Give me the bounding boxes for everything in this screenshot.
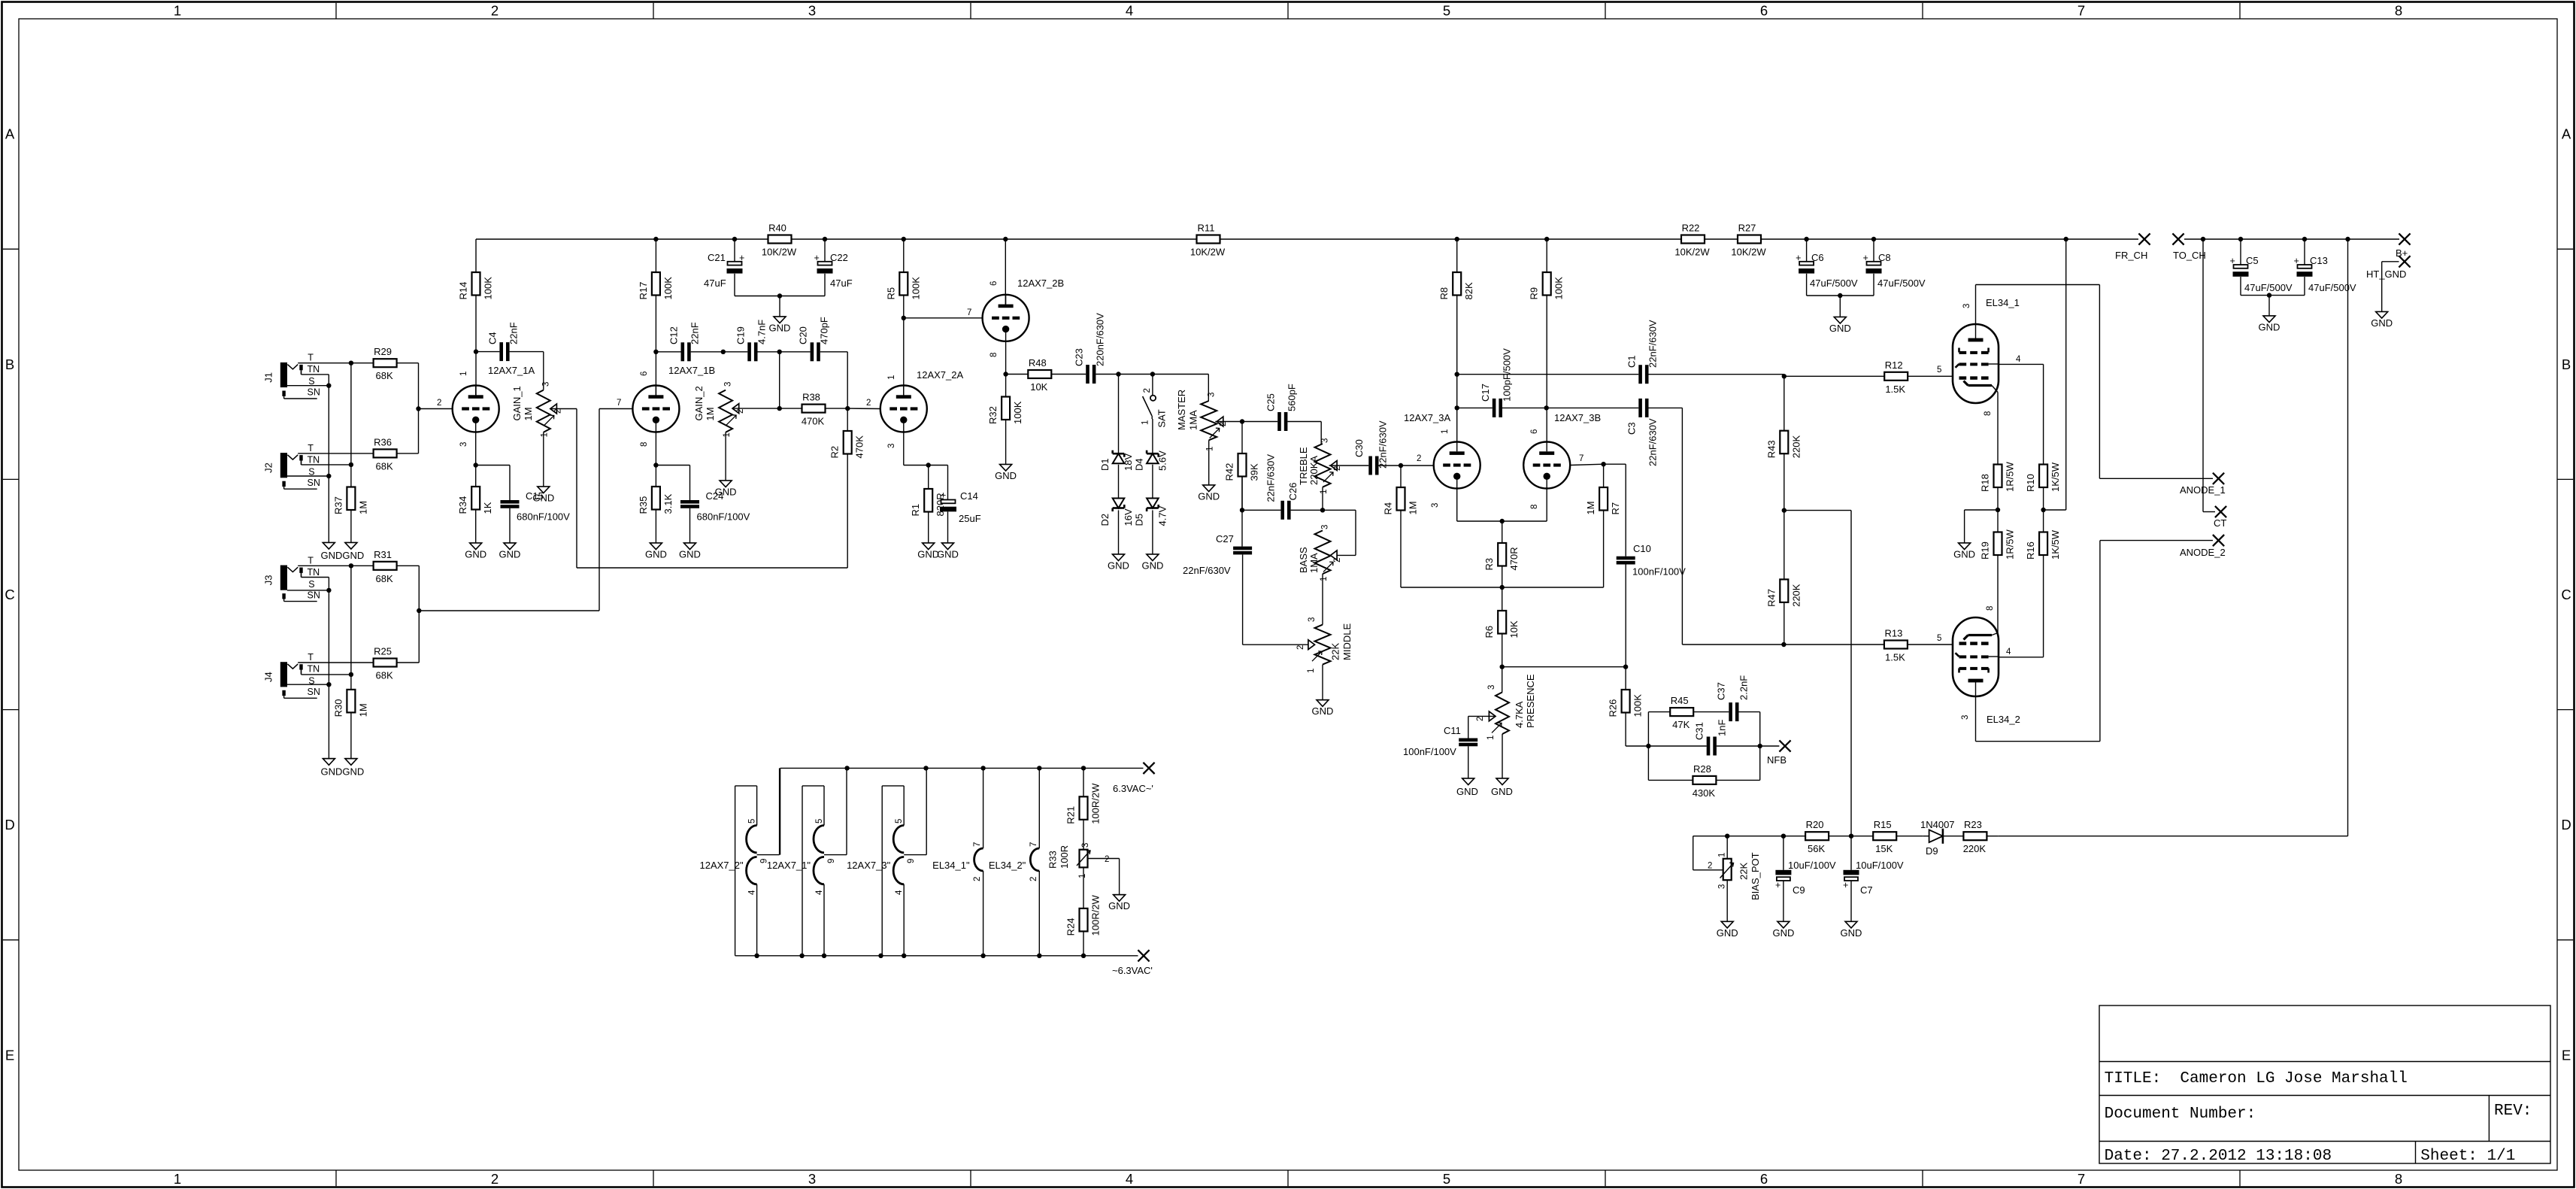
wire heater top bus xyxy=(780,767,1144,769)
capacitor C9 xyxy=(1775,836,1836,922)
date text xyxy=(2105,1148,2332,1165)
pin label EL34_2 g1 xyxy=(1937,634,1941,643)
svg-text:3: 3 xyxy=(1718,884,1727,889)
wire C3 to R13 node xyxy=(1649,408,1787,647)
svg-text:6: 6 xyxy=(989,281,999,286)
svg-text:J4: J4 xyxy=(263,672,274,682)
svg-text:8: 8 xyxy=(640,442,649,447)
wire cathode 2A xyxy=(904,432,948,505)
zener diode D5 xyxy=(1134,499,1168,526)
svg-text:R26: R26 xyxy=(1608,699,1619,717)
wire grid 1A xyxy=(0,0,1,1)
svg-text:ANODE_2: ANODE_2 xyxy=(2180,547,2226,558)
wire PRESENCE wiper to C11 xyxy=(1468,716,1496,738)
ground C5/C13 xyxy=(2259,316,2281,333)
node C26 bus xyxy=(1240,508,1244,512)
node R3 bottom xyxy=(1500,585,1505,590)
wire J3 tip xyxy=(298,563,373,568)
diode D9 1N4007 xyxy=(1920,819,1963,857)
svg-text:J1: J1 xyxy=(263,372,274,383)
svg-text:6: 6 xyxy=(640,372,649,376)
off-page connector NFB xyxy=(1767,740,1791,766)
svg-text:CT: CT xyxy=(2214,517,2226,529)
svg-text:4: 4 xyxy=(895,890,904,895)
svg-text:C20: C20 xyxy=(798,326,809,344)
svg-text:1M: 1M xyxy=(1408,501,1419,514)
svg-text:R34: R34 xyxy=(457,496,468,514)
svg-text:5: 5 xyxy=(748,819,757,824)
wire heater bottom bus xyxy=(735,955,1138,957)
svg-text:3: 3 xyxy=(1308,617,1317,622)
ground C14 xyxy=(937,543,959,560)
svg-text:GND: GND xyxy=(1717,927,1738,939)
potentiometer GAIN_1 xyxy=(511,382,563,438)
svg-text:R42: R42 xyxy=(1224,463,1235,481)
svg-text:GND: GND xyxy=(1772,927,1794,939)
svg-text:TN: TN xyxy=(308,664,320,675)
svg-text:10K: 10K xyxy=(1508,620,1520,638)
potentiometer PRESENCE xyxy=(1476,667,1536,740)
svg-text:47uF/500V: 47uF/500V xyxy=(2244,282,2293,293)
svg-text:22K: 22K xyxy=(1330,643,1341,660)
svg-text:2: 2 xyxy=(1029,877,1038,881)
svg-text:9: 9 xyxy=(907,859,916,863)
svg-text:MIDDLE: MIDDLE xyxy=(1341,623,1353,660)
svg-text:GND: GND xyxy=(1456,786,1478,797)
pin label grid 3A xyxy=(1417,454,1421,463)
capacitor C6 xyxy=(1796,252,1858,289)
wire C12 to C19 node xyxy=(691,350,726,354)
svg-text:R25: R25 xyxy=(374,646,392,657)
wire R42 to C26 xyxy=(1241,476,1243,511)
svg-text:3: 3 xyxy=(459,442,468,447)
svg-text:5.6V: 5.6V xyxy=(1157,450,1168,471)
svg-text:1.5K: 1.5K xyxy=(1885,652,1905,663)
svg-text:1R/5W: 1R/5W xyxy=(2005,529,2016,560)
svg-text:4.7nF: 4.7nF xyxy=(756,320,768,344)
svg-text:C: C xyxy=(5,587,14,602)
svg-text:470R: 470R xyxy=(1508,547,1520,570)
off-page connector TO_CH xyxy=(2172,233,2205,261)
svg-text:7: 7 xyxy=(2077,1171,2085,1187)
wire SAT to D4 xyxy=(1151,416,1153,453)
capacitor C10 xyxy=(1617,543,1686,667)
resistor R28 xyxy=(1693,763,1760,799)
svg-text:3: 3 xyxy=(1961,715,1970,720)
zener diode D2 xyxy=(1099,499,1134,526)
wire B+ to bias xyxy=(1998,239,2347,836)
svg-text:R27: R27 xyxy=(1738,223,1756,234)
svg-text:C37: C37 xyxy=(1716,682,1727,700)
svg-text:R6: R6 xyxy=(1483,626,1495,638)
wire C23 to SAT/master xyxy=(1096,372,1208,401)
title text xyxy=(2105,1070,2408,1087)
svg-text:1: 1 xyxy=(1718,853,1727,857)
svg-text:10K: 10K xyxy=(1030,381,1047,393)
title block frame xyxy=(2099,1005,2550,1163)
svg-text:1K/5W: 1K/5W xyxy=(2050,462,2061,492)
svg-text:C17: C17 xyxy=(1480,384,1491,402)
svg-text:220K: 220K xyxy=(1790,435,1802,459)
resistor R32 xyxy=(987,375,1023,465)
svg-text:10K/2W: 10K/2W xyxy=(1190,247,1226,258)
capacitor C4 xyxy=(487,322,520,361)
svg-text:3: 3 xyxy=(542,382,551,387)
resistor R34 xyxy=(457,466,493,544)
wire TO_CH to CT xyxy=(2203,239,2215,512)
svg-text:GND: GND xyxy=(2259,322,2281,333)
svg-text:FR_CH: FR_CH xyxy=(2115,250,2147,261)
svg-text:~6.3VAC': ~6.3VAC' xyxy=(1112,965,1153,976)
svg-text:C: C xyxy=(2561,587,2571,602)
svg-text:SN: SN xyxy=(308,590,320,600)
svg-text:1: 1 xyxy=(174,3,181,19)
svg-text:2: 2 xyxy=(554,409,563,414)
svg-text:D5: D5 xyxy=(1134,514,1145,526)
svg-text:TREBLE: TREBLE xyxy=(1298,447,1309,485)
wire MASTER wiper xyxy=(1215,419,1244,423)
capacitor C5 xyxy=(2230,255,2293,293)
resistor R13 xyxy=(1784,628,1953,663)
wire C22 stub xyxy=(824,239,826,262)
svg-text:7: 7 xyxy=(973,842,982,847)
svg-text:B+: B+ xyxy=(2396,247,2408,259)
svg-text:220K: 220K xyxy=(1790,584,1802,607)
svg-text:100K: 100K xyxy=(1012,401,1023,424)
ground D2 xyxy=(1108,554,1129,572)
ground R30 xyxy=(345,759,357,766)
svg-text:R4: R4 xyxy=(1383,502,1394,515)
resistor R38 xyxy=(780,392,848,427)
wire C6/C8 ground link xyxy=(1807,274,1874,317)
junction dots bottom bus xyxy=(754,954,1086,958)
svg-text:SN: SN xyxy=(308,387,320,398)
wire D2 to gnd xyxy=(1118,510,1120,554)
wire NFB bus C31 left xyxy=(1648,745,1706,747)
svg-text:R36: R36 xyxy=(374,436,392,447)
svg-text:1N4007: 1N4007 xyxy=(1920,819,1955,830)
wire C19 to C20 xyxy=(758,350,782,354)
heater 12AX7_2 xyxy=(699,768,779,955)
wire J2 TN xyxy=(302,460,351,465)
svg-text:1: 1 xyxy=(1141,420,1150,425)
svg-text:R33: R33 xyxy=(1047,851,1059,869)
svg-text:GND: GND xyxy=(1312,705,1334,717)
svg-text:R30: R30 xyxy=(332,699,344,717)
svg-text:47uF/500V: 47uF/500V xyxy=(2308,282,2356,293)
off-page connector FR_CH xyxy=(2115,233,2150,261)
wire C4 to GAIN_1 xyxy=(510,352,544,390)
svg-text:3: 3 xyxy=(1208,393,1217,397)
svg-text:C23: C23 xyxy=(1074,348,1085,366)
ground GAIN_1 xyxy=(532,487,554,504)
svg-text:2: 2 xyxy=(736,409,745,414)
zener diode D1 xyxy=(1099,450,1134,471)
svg-text:GND: GND xyxy=(679,549,701,560)
wire C20 right to R2 top xyxy=(820,352,847,408)
wire cathode 2B xyxy=(1003,341,1008,377)
wire grid 1B xyxy=(599,408,632,410)
wire sleeve bus J1-J2 xyxy=(328,386,329,543)
svg-text:E: E xyxy=(5,1047,14,1063)
svg-text:8: 8 xyxy=(1530,505,1539,509)
capacitor C22 xyxy=(814,252,853,289)
svg-text:1: 1 xyxy=(1320,577,1329,581)
wire C37 to node xyxy=(1739,712,1760,746)
svg-text:12AX7_1A: 12AX7_1A xyxy=(488,365,535,376)
svg-text:68K: 68K xyxy=(376,460,393,472)
node plate 1B xyxy=(653,350,658,354)
svg-text:2: 2 xyxy=(437,399,441,408)
svg-text:1MA: 1MA xyxy=(1188,410,1199,430)
svg-text:Document Number:: Document Number: xyxy=(2105,1106,2256,1123)
svg-text:1: 1 xyxy=(541,432,550,437)
svg-text:A: A xyxy=(5,126,15,142)
pin labels 1B xyxy=(617,372,649,447)
wire cathode 3B xyxy=(1500,489,1547,524)
resistor R24 xyxy=(1065,867,1102,955)
resistor R14 xyxy=(458,239,494,352)
wire TREBLE bottom xyxy=(1320,487,1325,513)
wire B+ rail segment 4 xyxy=(1705,238,1738,240)
wire TO_CH to B+ segment xyxy=(2184,238,2399,240)
svg-text:1nF: 1nF xyxy=(1717,720,1728,736)
wire J4 tip xyxy=(298,662,373,663)
svg-text:SN: SN xyxy=(308,687,320,697)
svg-text:22K: 22K xyxy=(1738,863,1750,880)
svg-text:TITLE: Cameron LG Jose Marsha: TITLE: Cameron LG Jose Marshall xyxy=(2105,1070,2408,1087)
svg-text:SAT: SAT xyxy=(1156,409,1168,427)
resistor R31 xyxy=(374,549,420,584)
svg-text:5: 5 xyxy=(1443,1171,1450,1187)
svg-text:3: 3 xyxy=(1487,685,1496,690)
svg-text:R21: R21 xyxy=(1065,806,1077,824)
svg-text:R40: R40 xyxy=(768,223,786,234)
svg-text:68K: 68K xyxy=(376,670,393,681)
wire R26 to NFB bus xyxy=(1626,744,1650,748)
svg-text:2: 2 xyxy=(866,399,871,408)
wire GAIN_2 bottom xyxy=(725,432,726,481)
svg-text:9: 9 xyxy=(827,859,836,863)
svg-text:C6: C6 xyxy=(1811,252,1824,263)
ground HT_GND xyxy=(2371,312,2393,329)
ground MASTER xyxy=(1198,485,1220,502)
heater 12AX7_3 xyxy=(847,768,926,955)
svg-text:2: 2 xyxy=(1417,454,1421,463)
svg-text:D: D xyxy=(2561,817,2571,833)
svg-text:GND: GND xyxy=(995,470,1017,481)
tube EL34_2 xyxy=(1953,617,2020,725)
svg-text:3: 3 xyxy=(1962,304,1971,308)
svg-text:68K: 68K xyxy=(376,370,393,381)
svg-text:1K: 1K xyxy=(482,502,493,514)
wire 1A plate lead xyxy=(475,352,477,397)
svg-text:100K: 100K xyxy=(1632,694,1644,717)
wire R45 branch xyxy=(1648,712,1670,746)
svg-text:3: 3 xyxy=(808,3,816,19)
svg-text:2: 2 xyxy=(1105,855,1109,864)
svg-text:7: 7 xyxy=(967,308,971,317)
capacitor C11 xyxy=(1403,725,1477,778)
svg-text:2: 2 xyxy=(1296,645,1305,650)
svg-text:R43: R43 xyxy=(1765,440,1777,458)
resistor R36 xyxy=(374,436,419,472)
svg-text:EL34_2: EL34_2 xyxy=(1987,714,2020,725)
svg-text:4: 4 xyxy=(2016,355,2021,364)
capacitor C19 xyxy=(723,320,768,362)
svg-text:100nF/100V: 100nF/100V xyxy=(1632,566,1686,578)
ground R34 xyxy=(465,543,486,560)
svg-text:3: 3 xyxy=(1431,503,1440,508)
wire plate 1B lead xyxy=(655,352,656,397)
wire J3 TN xyxy=(302,573,329,590)
wire PRESENCE bottom xyxy=(1502,734,1503,778)
capacitor C37 xyxy=(1716,675,1750,721)
pin labels EL34_2 xyxy=(1961,606,2011,720)
svg-text:22nF/630V: 22nF/630V xyxy=(1265,454,1277,502)
resistor R45 xyxy=(1670,695,1729,730)
resistor R11 xyxy=(1190,223,1226,258)
svg-text:GND: GND xyxy=(645,549,667,560)
wire J4 sleeve xyxy=(287,682,332,687)
svg-text:SN: SN xyxy=(308,478,320,488)
wire C6 stub xyxy=(1806,239,1808,262)
svg-text:12AX7_2B: 12AX7_2B xyxy=(1017,278,1064,289)
svg-text:EL34_1": EL34_1" xyxy=(932,860,970,871)
svg-text:12AX7_2": 12AX7_2" xyxy=(699,860,743,871)
svg-text:8: 8 xyxy=(989,353,999,357)
wire C19/C20 node down xyxy=(777,352,782,411)
wire R28 branch xyxy=(1648,746,1693,780)
wire J2 sleeve xyxy=(287,474,332,478)
svg-text:1: 1 xyxy=(459,372,468,376)
svg-text:1R/5W: 1R/5W xyxy=(2005,462,2016,492)
svg-text:BIAS_POT: BIAS_POT xyxy=(1750,852,1761,900)
svg-text:22nF: 22nF xyxy=(508,322,520,344)
svg-text:4: 4 xyxy=(2006,648,2011,657)
svg-text:+: + xyxy=(941,490,946,501)
svg-text:560pF: 560pF xyxy=(1286,384,1298,411)
resistor R29 xyxy=(374,346,419,381)
junction dots top bus xyxy=(844,766,1086,770)
svg-text:100nF/100V: 100nF/100V xyxy=(1403,746,1456,757)
svg-text:R29: R29 xyxy=(374,346,392,357)
pin label EL34_1 screen wire xyxy=(0,0,1,1)
capacitor C17 xyxy=(1480,348,1513,417)
svg-text:470pF: 470pF xyxy=(819,317,830,344)
wire 2B plate xyxy=(1005,239,1006,308)
heater EL34_1 xyxy=(932,768,983,955)
svg-text:4.7KA: 4.7KA xyxy=(1514,701,1525,728)
svg-text:8: 8 xyxy=(2395,1171,2402,1187)
wire J3 sleeve xyxy=(287,588,332,593)
svg-text:GND: GND xyxy=(937,549,959,560)
tube 12AX7_3B xyxy=(1523,412,1601,489)
wire bias feed xyxy=(1784,511,1851,836)
node presence tap xyxy=(1500,665,1505,669)
svg-text:C12: C12 xyxy=(668,326,680,344)
svg-text:22nF/630V: 22nF/630V xyxy=(1377,420,1389,469)
svg-text:C31: C31 xyxy=(1694,722,1705,740)
ground MIDDLE xyxy=(1312,700,1334,717)
svg-text:GND: GND xyxy=(1108,560,1129,572)
svg-text:C5: C5 xyxy=(2246,255,2259,266)
wire GAIN_1 wiper to R2 bottom xyxy=(550,409,847,569)
resistor R8 xyxy=(1438,239,1474,442)
svg-text:12AX7_3B: 12AX7_3B xyxy=(1554,412,1601,423)
svg-text:PRESENCE: PRESENCE xyxy=(1525,674,1536,728)
svg-text:5: 5 xyxy=(1937,365,1941,375)
svg-text:1: 1 xyxy=(1307,669,1316,673)
jack J4 xyxy=(263,652,320,698)
svg-text:GNDGND: GNDGND xyxy=(321,766,365,778)
svg-text:680nF/100V: 680nF/100V xyxy=(697,511,750,523)
svg-text:10uF/100V: 10uF/100V xyxy=(1788,860,1836,871)
svg-text:47K: 47K xyxy=(1672,719,1690,730)
svg-text:2: 2 xyxy=(1708,862,1712,871)
wire EL34_2 anode to ANODE_2 xyxy=(1976,541,2214,742)
svg-text:100K: 100K xyxy=(483,277,494,300)
svg-text:1K/5W: 1K/5W xyxy=(2050,529,2061,560)
svg-text:1MA: 1MA xyxy=(1308,553,1320,573)
svg-text:A: A xyxy=(2562,126,2571,142)
wire cathode gnd stub xyxy=(1965,510,1998,543)
jack J1 xyxy=(263,353,320,399)
svg-text:2: 2 xyxy=(491,1171,499,1187)
svg-text:1: 1 xyxy=(1441,429,1450,434)
svg-text:R35: R35 xyxy=(638,496,649,514)
node grid 2A xyxy=(845,406,850,411)
svg-text:J2: J2 xyxy=(263,463,274,473)
wire plate 2A lead xyxy=(903,318,905,398)
resistor R20 xyxy=(1805,819,1851,854)
svg-text:R19: R19 xyxy=(1980,541,1991,560)
svg-text:12AX7_3": 12AX7_3" xyxy=(847,860,890,871)
wire C8 stub xyxy=(1873,239,1874,262)
svg-text:C7: C7 xyxy=(1860,884,1873,896)
svg-text:Sheet: 1/1: Sheet: 1/1 xyxy=(2420,1148,2515,1165)
svg-text:220KA: 220KA xyxy=(1308,456,1320,485)
svg-text:56K: 56K xyxy=(1808,843,1825,854)
ground C21/C22 xyxy=(769,317,791,334)
svg-text:C26: C26 xyxy=(1287,483,1299,501)
svg-text:GND: GND xyxy=(1953,549,1975,560)
ground R37 xyxy=(345,543,357,550)
potentiometer BASS xyxy=(1298,525,1342,581)
svg-text:R38: R38 xyxy=(802,392,820,403)
wire C21 stub xyxy=(734,239,735,262)
svg-text:220nF/630V: 220nF/630V xyxy=(1095,313,1106,366)
svg-text:Date: 27.2.2012 13:18:08: Date: 27.2.2012 13:18:08 xyxy=(2105,1148,2332,1165)
svg-text:C24: C24 xyxy=(706,490,724,502)
resistor R3 xyxy=(1483,521,1520,587)
svg-text:5: 5 xyxy=(1443,3,1450,19)
heater EL34_2 xyxy=(989,768,1039,955)
wire C30 to grid 3A xyxy=(1379,463,1434,468)
svg-text:10K/2W: 10K/2W xyxy=(762,247,797,258)
wire NFB bus C31 right xyxy=(1717,744,1780,748)
svg-text:7: 7 xyxy=(2077,3,2085,19)
svg-text:1: 1 xyxy=(1206,447,1215,451)
svg-text:C1: C1 xyxy=(1626,355,1638,368)
wire J1 sleeve xyxy=(287,384,332,388)
wire R29/R36 join to grid 1A xyxy=(416,363,452,453)
capacitor C7 xyxy=(1843,836,1904,922)
svg-text:T: T xyxy=(308,555,314,566)
tube 12AX7_1A xyxy=(453,365,535,432)
svg-text:R37: R37 xyxy=(332,496,344,514)
wire MIDDLE bottom xyxy=(1322,665,1323,700)
